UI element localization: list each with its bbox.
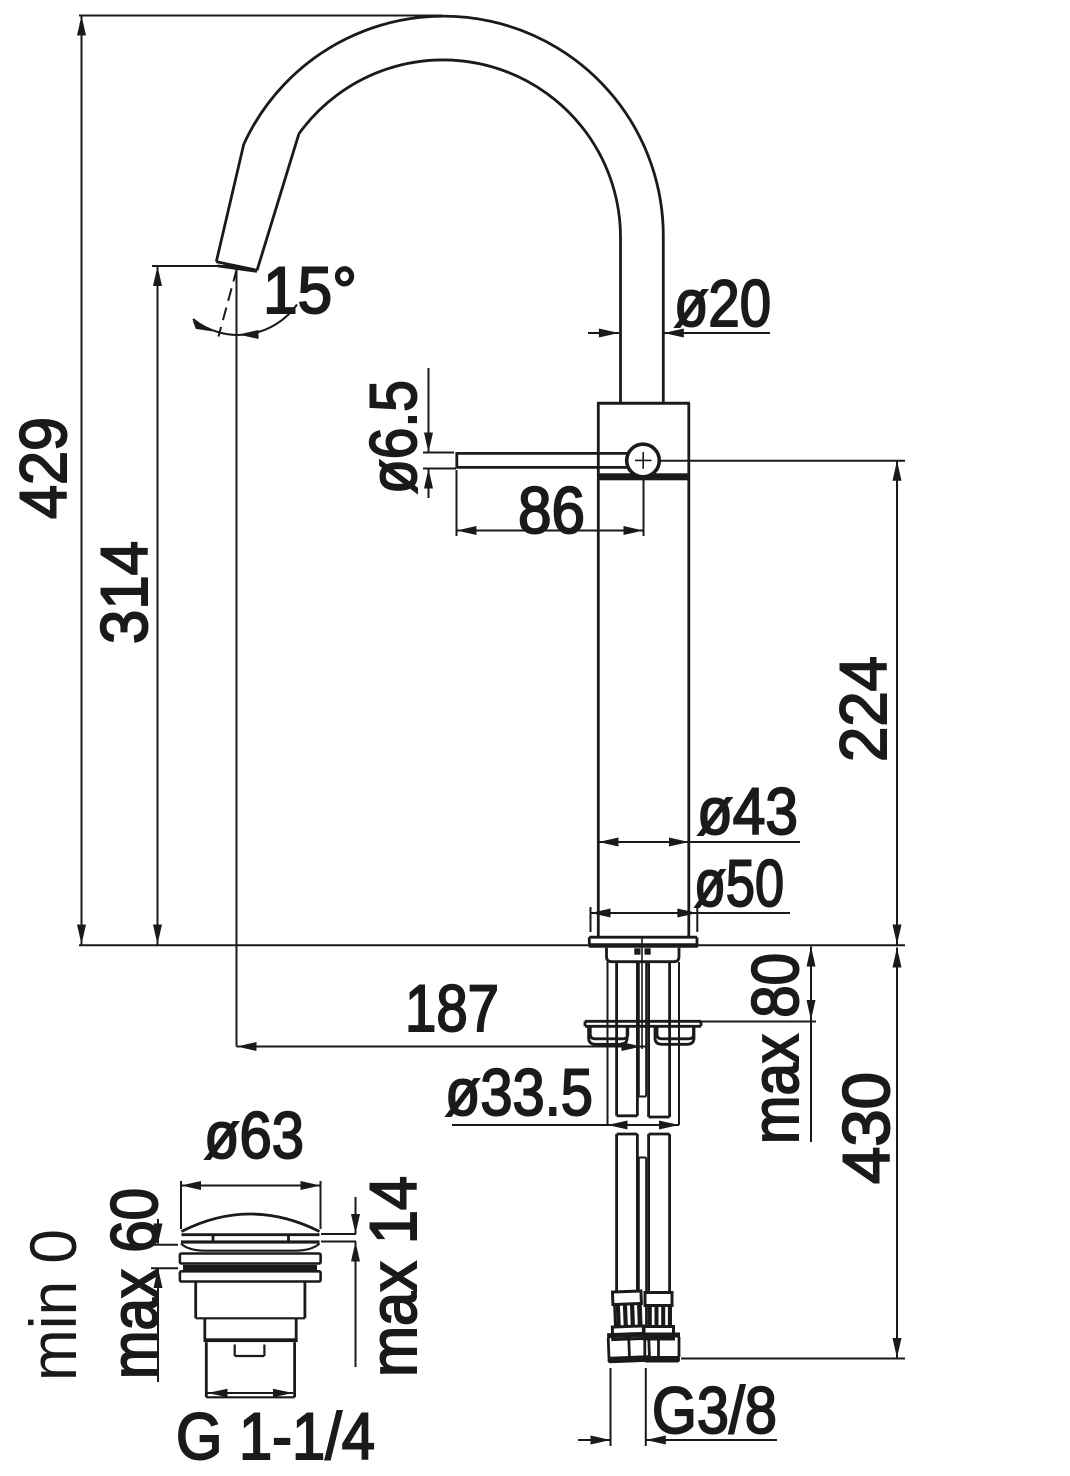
centerline bbox=[641, 937, 643, 1049]
dimension 224 body height bbox=[826, 461, 902, 945]
svg-text:224: 224 bbox=[826, 656, 900, 762]
dimension max 80 clamping range bbox=[701, 947, 816, 1145]
svg-text:min 0: min 0 bbox=[16, 1229, 90, 1381]
right hose crimp and nut bbox=[644, 1293, 681, 1363]
drain cap rim bbox=[182, 1235, 320, 1241]
svg-text:430: 430 bbox=[829, 1072, 903, 1184]
svg-text:429: 429 bbox=[6, 417, 80, 519]
dimension ø20 spout tube bbox=[588, 266, 771, 340]
dimension 314 spout outlet height bbox=[87, 266, 237, 945]
drain seal seat bbox=[181, 1240, 320, 1250]
dimension G3/8 hose thread bbox=[578, 1368, 777, 1447]
shank slot notches bbox=[634, 948, 650, 954]
svg-text:ø20: ø20 bbox=[674, 266, 771, 340]
svg-text:ø33.5: ø33.5 bbox=[445, 1055, 593, 1129]
pop-up pull rod bbox=[639, 962, 646, 1333]
base plate ø50 bbox=[589, 937, 697, 944]
svg-text:ø6.5: ø6.5 bbox=[356, 380, 430, 494]
svg-text:187: 187 bbox=[405, 971, 499, 1045]
lever handle bar bbox=[457, 452, 629, 469]
right supply hose bbox=[649, 962, 670, 1293]
svg-text:max 60: max 60 bbox=[97, 1188, 171, 1379]
drain upper flange washer bbox=[180, 1254, 321, 1264]
spout outlet face bbox=[216, 262, 257, 272]
lever slot band bbox=[597, 473, 690, 480]
svg-text:G3/8: G3/8 bbox=[652, 1373, 777, 1447]
dimension G 1-1/4 drain thread bbox=[176, 1389, 375, 1473]
svg-text:G 1-1/4: G 1-1/4 bbox=[176, 1399, 375, 1473]
faucet body column ø43 bbox=[598, 403, 689, 937]
svg-text:max 14: max 14 bbox=[356, 1176, 430, 1377]
dimension max 60 counter thickness bbox=[97, 1188, 178, 1382]
svg-text:max 80: max 80 bbox=[738, 953, 812, 1144]
dimension 429 overall height bbox=[6, 16, 442, 945]
drain plug cap dome bbox=[182, 1214, 320, 1232]
dimension ø43 column bbox=[599, 774, 801, 848]
angle dimension 15 deg bbox=[193, 253, 357, 339]
mounting nut halves bbox=[589, 1027, 694, 1045]
dimension max 14 cap height bbox=[321, 1176, 430, 1377]
svg-text:15°: 15° bbox=[263, 253, 357, 327]
label min 0 bbox=[16, 1229, 90, 1381]
svg-text:314: 314 bbox=[87, 541, 161, 644]
lever pivot ball bbox=[627, 444, 660, 477]
drain lower flange washer bbox=[180, 1271, 321, 1281]
threaded shank collar bbox=[607, 948, 680, 962]
drain threaded tail G1-1/4 bbox=[206, 1342, 294, 1397]
svg-text:86: 86 bbox=[518, 473, 585, 547]
left hose crimp and nut bbox=[605, 1291, 651, 1364]
dimension ø33.5 mounting hole bbox=[445, 962, 679, 1130]
dimension ø6.5 lever bar bbox=[356, 368, 456, 498]
dimension ø63 drain cap bbox=[181, 1098, 321, 1229]
outlet projection line bbox=[236, 266, 238, 1047]
svg-text:ø50: ø50 bbox=[694, 846, 784, 920]
drain neck bbox=[204, 1318, 298, 1342]
mounting washer bbox=[585, 1021, 701, 1026]
drain body bbox=[196, 1282, 305, 1319]
left supply hose bbox=[617, 962, 638, 1291]
body top edge bbox=[597, 402, 690, 405]
dimension ø50 base bbox=[591, 846, 791, 932]
spout gooseneck tube bbox=[216, 16, 663, 402]
dimension 187 spout reach bbox=[237, 971, 647, 1051]
lever center extension line bbox=[659, 460, 905, 462]
svg-text:ø63: ø63 bbox=[204, 1098, 304, 1172]
counter reference baseline bbox=[79, 944, 905, 946]
drain rubber gasket bbox=[183, 1265, 317, 1271]
svg-text:ø43: ø43 bbox=[697, 774, 798, 848]
dimension 86 lever length bbox=[457, 470, 644, 547]
dimension 430 hose length bbox=[681, 948, 905, 1359]
